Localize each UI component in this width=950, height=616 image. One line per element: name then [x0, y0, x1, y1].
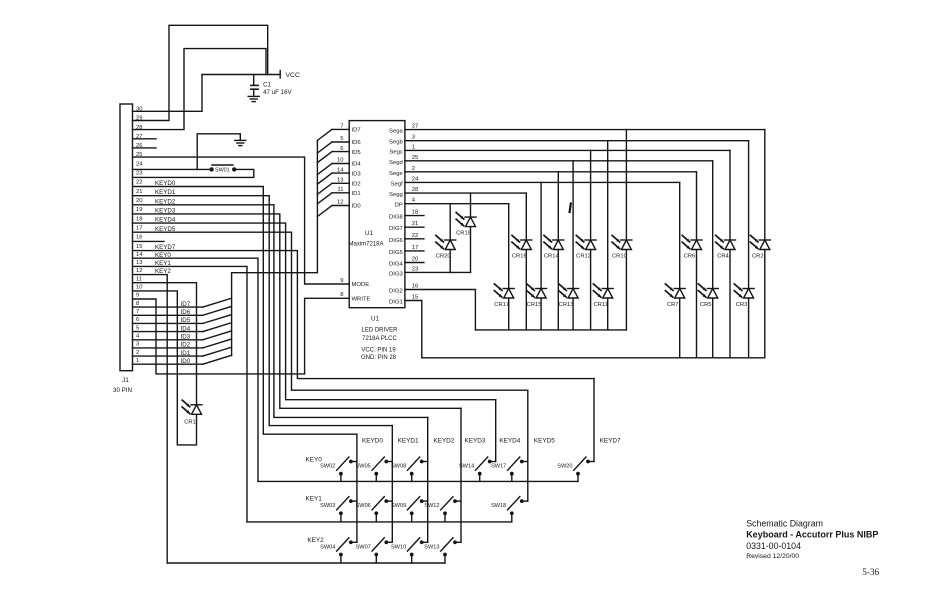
- wire bus branch to U1 ID2 pin 13: [317, 178, 349, 195]
- wire KEY0 label: [155, 252, 171, 259]
- LED CR2: [751, 130, 771, 358]
- svg-text:DIG6: DIG6: [389, 238, 403, 244]
- pin label Segb pin 3: [389, 135, 416, 146]
- pin 25 number: [136, 152, 142, 158]
- LED CR20: [436, 204, 456, 273]
- LED CR15: [527, 182, 547, 330]
- wire KEYD0 from pin 22 label: [155, 180, 176, 187]
- wire KEYD3 routing: [133, 214, 462, 408]
- switch SW06: [356, 497, 393, 522]
- wire bus branch to U1 ID3 pin 14: [317, 167, 349, 184]
- svg-text:ID2: ID2: [352, 182, 361, 188]
- svg-text:SW05: SW05: [356, 464, 371, 470]
- wire KEYD2 from pin 20 label: [155, 198, 176, 205]
- wire KEYD7 from pin 15 label: [155, 244, 176, 251]
- switch SW09: [391, 497, 428, 522]
- svg-text:KEYD5: KEYD5: [534, 438, 555, 445]
- svg-text:21: 21: [136, 189, 142, 195]
- svg-text:9: 9: [136, 293, 139, 299]
- wire Segc output: [405, 149, 730, 151]
- LED CR12: [576, 150, 596, 330]
- wire column KEYD7 vertical: [593, 379, 595, 462]
- svg-text:SW17: SW17: [491, 464, 506, 470]
- svg-text:28: 28: [136, 125, 142, 131]
- pin label ID0: [352, 204, 362, 210]
- wire KEY0 from pin 14 routing: [133, 258, 259, 481]
- node column KEYD4 label: [499, 438, 520, 445]
- U1 description text: [361, 316, 398, 362]
- title block: [746, 519, 878, 560]
- node column KEYD0 label: [362, 438, 383, 445]
- pin 17 number: [136, 225, 142, 231]
- svg-text:WRITE: WRITE: [352, 297, 371, 303]
- svg-text:VCC: PIN 19: VCC: PIN 19: [361, 348, 396, 354]
- switch SW10: [391, 538, 428, 563]
- svg-text:13: 13: [337, 178, 344, 184]
- svg-text:ID1: ID1: [181, 350, 191, 357]
- svg-text:1: 1: [412, 144, 415, 150]
- wire KEYD4 from pin 18 label: [155, 217, 176, 224]
- wire pin 9 to U1 WRITE: [133, 298, 350, 374]
- svg-text:CR6: CR6: [684, 254, 696, 260]
- pin label DIG1 pin 15: [389, 295, 419, 306]
- wire ID3 from pin 4: [133, 331, 232, 341]
- pin 8 number: [136, 301, 139, 307]
- pin 2 number: [136, 350, 139, 356]
- svg-text:SW13: SW13: [424, 544, 439, 550]
- svg-text:23: 23: [412, 266, 419, 272]
- svg-text:11: 11: [136, 276, 142, 282]
- svg-text:DIG5: DIG5: [389, 250, 403, 256]
- wire pin 25 to U1 MODE: [133, 157, 350, 284]
- wire ID4 from pin 5: [133, 323, 232, 333]
- svg-text:ID7: ID7: [181, 301, 191, 308]
- svg-text:KEYD4: KEYD4: [499, 438, 520, 445]
- svg-text:KEYD1: KEYD1: [398, 438, 419, 445]
- LED CR13: [559, 161, 579, 330]
- svg-text:SW03: SW03: [320, 503, 335, 509]
- svg-text:DIG1: DIG1: [389, 300, 403, 306]
- svg-text:DIG3: DIG3: [389, 271, 403, 277]
- pin label Sege pin 2: [389, 166, 415, 177]
- switch SW07: [356, 538, 393, 563]
- wire column KEYD3 vertical: [460, 408, 462, 542]
- wire ID5 from pin 6: [133, 315, 232, 325]
- svg-text:CR14: CR14: [544, 254, 560, 260]
- svg-text:0331-00-0104: 0331-00-0104: [746, 541, 801, 551]
- LED CR17: [494, 204, 514, 330]
- svg-text:Revised 12/20/00: Revised 12/20/00: [746, 553, 799, 560]
- svg-text:KEYD2: KEYD2: [433, 438, 454, 445]
- svg-text:ID0: ID0: [352, 204, 362, 210]
- node column KEYD1 label: [398, 438, 419, 445]
- pin label ID5: [352, 150, 362, 156]
- pin label Segd pin 25: [389, 155, 419, 166]
- wire pin 10 to CR1 anode: [133, 291, 197, 445]
- svg-text:GND: PIN 28: GND: PIN 28: [361, 355, 397, 361]
- pin 7 number: [136, 309, 139, 315]
- wire DIG7 stub: [405, 226, 424, 228]
- pin label DP pin 4: [395, 198, 416, 209]
- node column KEYD2 label: [433, 438, 454, 445]
- op-amp U1 LED driver Maxim7218A body: [349, 121, 405, 308]
- svg-text:28: 28: [412, 187, 419, 193]
- svg-text:27: 27: [412, 124, 419, 130]
- svg-text:17: 17: [136, 225, 142, 231]
- wire DIG6 stub: [405, 238, 424, 240]
- svg-text:7: 7: [136, 309, 139, 315]
- svg-text:5-36: 5-36: [862, 567, 879, 577]
- svg-text:CR10: CR10: [612, 254, 627, 260]
- pin 22 number: [136, 180, 142, 186]
- LED CR1: [182, 400, 202, 425]
- wire Sega output: [405, 129, 765, 131]
- svg-text:CR17: CR17: [494, 302, 509, 308]
- wire bus branch to U1 ID5 pin 6: [317, 146, 349, 163]
- wire DIG1 output: [405, 301, 422, 358]
- LED CR7: [665, 182, 685, 357]
- svg-text:KEYD7: KEYD7: [600, 438, 621, 445]
- svg-text:25: 25: [412, 155, 419, 161]
- pin 26 number: [136, 143, 142, 149]
- svg-text:ID5: ID5: [352, 150, 362, 156]
- svg-text:5: 5: [136, 325, 139, 331]
- wire KEY1 from pin 13 routing: [133, 266, 248, 522]
- svg-text:30 PIN: 30 PIN: [113, 387, 132, 394]
- svg-text:7218A PLCC: 7218A PLCC: [362, 336, 397, 342]
- svg-text:CR4: CR4: [717, 254, 729, 260]
- node column KEYD7 label: [600, 438, 621, 445]
- svg-text:ID2: ID2: [181, 342, 191, 349]
- pin label DIG3 pin 23: [389, 266, 419, 277]
- switch SW04: [320, 538, 357, 563]
- pin 9 number: [136, 293, 139, 299]
- pin label Segc pin 1: [389, 144, 415, 155]
- svg-text:20: 20: [412, 257, 419, 263]
- svg-text:CR11: CR11: [594, 302, 608, 308]
- switch SW12: [424, 497, 461, 522]
- wire bus branch to U1 ID6 pin 5: [317, 136, 349, 153]
- wire bus branch to U1 ID0 pin 12: [317, 200, 349, 217]
- switch SW20: [557, 457, 594, 481]
- svg-text:22: 22: [412, 233, 419, 239]
- wire row KEY1: [247, 496, 512, 522]
- svg-text:14: 14: [136, 252, 143, 258]
- pin 20 number: [136, 198, 142, 204]
- svg-text:DIG4: DIG4: [389, 262, 403, 268]
- svg-text:Segf: Segf: [391, 181, 403, 187]
- wire KEY1 label: [155, 260, 171, 267]
- svg-text:KEY1: KEY1: [306, 496, 323, 503]
- pin 21 number: [136, 189, 142, 195]
- ground for capacitor C1: [248, 96, 259, 101]
- svg-text:ID4: ID4: [181, 325, 191, 332]
- wire KEYD1 from pin 21 label: [155, 189, 176, 196]
- pin 27 number: [136, 134, 142, 140]
- wire column KEYD1 vertical: [391, 426, 393, 543]
- wire KEYD4 routing: [133, 223, 496, 400]
- wire ID1 from pin 2: [133, 347, 232, 357]
- wire pin 27 stub: [133, 138, 157, 140]
- svg-text:11: 11: [337, 187, 343, 193]
- svg-text:9: 9: [340, 278, 343, 284]
- svg-text:8: 8: [136, 301, 139, 307]
- ground at switch SW01: [197, 134, 246, 170]
- LED CR5: [698, 161, 718, 358]
- pin label Segg pin 28: [389, 187, 419, 198]
- svg-text:Sega: Sega: [389, 129, 403, 135]
- pin label Segf pin 24: [391, 176, 419, 187]
- switch SW01: [209, 165, 236, 174]
- wire KEYD2 routing: [133, 205, 428, 418]
- LED CR6: [682, 172, 702, 358]
- pin 3 number: [136, 342, 139, 348]
- svg-text:J1: J1: [122, 377, 129, 384]
- wire pin 30 to VCC rail: [133, 75, 203, 112]
- pin label DIG4 pin 20: [389, 257, 419, 268]
- wire bus branch to U1 ID7 pin 7: [317, 124, 349, 141]
- svg-text:10: 10: [337, 158, 344, 164]
- wire row KEY0: [258, 457, 578, 482]
- svg-text:CR13: CR13: [559, 302, 574, 308]
- pin 24 number: [136, 161, 143, 167]
- connector J1 30-pin: [113, 104, 133, 394]
- svg-text:CR12: CR12: [576, 254, 591, 260]
- pin 15 number: [136, 244, 142, 250]
- svg-text:LED DRIVER: LED DRIVER: [361, 328, 398, 334]
- wire Segg output: [405, 192, 526, 194]
- svg-text:ID5: ID5: [181, 317, 191, 324]
- svg-text:15: 15: [412, 295, 419, 301]
- svg-text:CR7: CR7: [667, 302, 679, 308]
- wire SW01 to pin 23: [133, 169, 254, 177]
- pin 5 number: [136, 325, 139, 331]
- wire KEYD1 routing: [133, 196, 393, 426]
- svg-text:21: 21: [412, 221, 419, 227]
- pin 11 number: [136, 276, 142, 282]
- pin 6 number: [136, 317, 139, 323]
- svg-text:ID6: ID6: [352, 140, 362, 146]
- pin 23 number: [136, 171, 142, 177]
- wire KEY2 from pin 12 routing: [133, 275, 168, 563]
- svg-text:KEYD0: KEYD0: [362, 438, 383, 445]
- svg-text:15: 15: [136, 244, 142, 250]
- svg-text:Sege: Sege: [389, 171, 403, 177]
- svg-text:Segd: Segd: [389, 160, 403, 166]
- switch SW02: [320, 457, 357, 481]
- svg-text:DIG8: DIG8: [389, 215, 403, 221]
- pin label ID6: [352, 140, 362, 146]
- wire pin 29 loop to VCC rail: [133, 25, 268, 120]
- wire DIG4 stub: [405, 262, 424, 264]
- wire Segb output: [405, 140, 749, 142]
- svg-text:MODE: MODE: [352, 282, 370, 288]
- svg-text:13: 13: [136, 260, 142, 266]
- pin 19 number: [136, 207, 142, 213]
- svg-text:Keyboard - Accutorr Plus NIBP: Keyboard - Accutorr Plus NIBP: [746, 530, 878, 540]
- svg-text:12: 12: [337, 200, 344, 206]
- svg-text:SW06: SW06: [356, 503, 371, 509]
- switch SW05: [356, 457, 393, 481]
- svg-text:47 uF 16V: 47 uF 16V: [263, 89, 292, 96]
- pin label ID3: [352, 171, 362, 177]
- wire column KEYD2 vertical: [427, 417, 429, 542]
- svg-text:SW08: SW08: [391, 464, 406, 470]
- wire KEYD0 routing: [133, 187, 357, 435]
- svg-text:16: 16: [412, 284, 419, 290]
- wire DIG8 stub: [405, 215, 424, 217]
- svg-text:VCC: VCC: [286, 72, 300, 79]
- LED CR14: [544, 172, 564, 330]
- svg-text:KEYD3: KEYD3: [465, 438, 486, 445]
- svg-text:ID3: ID3: [352, 171, 362, 177]
- pin label DIG7 pin 21: [389, 221, 418, 232]
- svg-text:C1: C1: [263, 81, 271, 88]
- wire ID0 from pin 1: [133, 355, 232, 365]
- power rail VCC with terminal: [202, 71, 300, 80]
- svg-text:U1: U1: [371, 316, 380, 323]
- wire DIG5 stub: [405, 250, 424, 252]
- wire ID7 from pin 8: [133, 298, 232, 308]
- wire column KEYD5 vertical: [527, 390, 529, 501]
- svg-text:DP: DP: [395, 203, 403, 209]
- switch SW13: [424, 538, 461, 563]
- wire DIG3 output: [405, 271, 471, 273]
- svg-text:SW12: SW12: [424, 503, 439, 509]
- pin label DIG2 pin 16: [389, 284, 419, 295]
- LED CR10: [612, 130, 632, 330]
- wire row KEY2: [167, 537, 445, 563]
- svg-text:ID7: ID7: [352, 128, 361, 134]
- wire Segd output: [405, 160, 713, 162]
- page number: [862, 567, 879, 577]
- svg-text:22: 22: [136, 180, 142, 186]
- svg-text:3: 3: [136, 342, 139, 348]
- svg-text:1: 1: [136, 358, 139, 364]
- svg-text:Segg: Segg: [389, 192, 403, 198]
- pin 14 number: [136, 252, 143, 258]
- svg-text:Schematic Diagram: Schematic Diagram: [746, 519, 823, 529]
- wire cathode bus right group: [422, 357, 765, 359]
- wire pin 28 loop to VCC rail: [133, 49, 267, 130]
- svg-text:7: 7: [340, 124, 343, 130]
- LED CR19: [456, 193, 476, 272]
- wire ID6 from pin 7: [133, 306, 232, 316]
- switch SW03: [320, 497, 357, 522]
- svg-text:24: 24: [412, 176, 419, 182]
- svg-text:ID4: ID4: [352, 162, 362, 168]
- svg-text:10: 10: [136, 285, 142, 291]
- svg-text:14: 14: [337, 167, 344, 173]
- svg-text:30: 30: [136, 107, 142, 113]
- svg-text:CR19: CR19: [456, 231, 471, 237]
- svg-text:DIG2: DIG2: [389, 289, 403, 295]
- wire bus branch to U1 ID1 pin 11: [317, 187, 349, 204]
- pin label DIG6 pin 22: [389, 233, 418, 244]
- pin label MODE: [340, 278, 369, 288]
- stray mark: [570, 204, 571, 213]
- wire pin 26 stub: [133, 147, 157, 149]
- svg-text:12: 12: [136, 268, 142, 274]
- wire pin 11 to CR1 cathode: [133, 283, 197, 405]
- svg-text:20: 20: [136, 198, 142, 204]
- wire DP output: [405, 203, 509, 205]
- svg-text:SW09: SW09: [391, 503, 406, 509]
- svg-text:SW18: SW18: [491, 503, 506, 509]
- svg-text:23: 23: [136, 171, 142, 177]
- switch SW18: [491, 497, 528, 522]
- svg-text:6: 6: [136, 317, 139, 323]
- node column KEYD5 label: [534, 438, 555, 445]
- switch SW08: [391, 457, 428, 481]
- wire Sege output: [405, 171, 697, 173]
- svg-text:ID1: ID1: [352, 191, 361, 197]
- svg-text:17: 17: [412, 245, 419, 251]
- svg-text:Segc: Segc: [389, 149, 402, 155]
- svg-text:SW04: SW04: [320, 544, 335, 550]
- svg-text:19: 19: [136, 207, 142, 213]
- svg-text:2: 2: [136, 350, 139, 356]
- svg-text:ID3: ID3: [181, 334, 191, 341]
- pin label Sega pin 27: [389, 124, 418, 135]
- pin label ID1: [352, 191, 361, 197]
- svg-text:16: 16: [136, 235, 142, 241]
- svg-text:SW20: SW20: [557, 464, 572, 470]
- wire pin 24 to SW01: [133, 168, 212, 170]
- svg-text:CR5: CR5: [700, 302, 712, 308]
- svg-text:18: 18: [412, 210, 419, 216]
- svg-text:ID6: ID6: [181, 309, 191, 316]
- svg-text:CR2: CR2: [752, 254, 764, 260]
- node column KEYD3 label: [465, 438, 486, 445]
- pin 29 number: [136, 116, 142, 122]
- wire column KEYD0 vertical: [356, 434, 358, 542]
- svg-text:CR20: CR20: [436, 254, 451, 260]
- svg-text:24: 24: [136, 161, 143, 167]
- pin 12 number: [136, 268, 142, 274]
- svg-text:SW07: SW07: [356, 544, 371, 550]
- wire cathode bus left group: [475, 329, 626, 331]
- pin 10 number: [136, 285, 142, 291]
- LED CR11: [593, 141, 613, 330]
- pin label DIG8 pin 18: [389, 210, 419, 221]
- pin 13 number: [136, 260, 142, 266]
- pin label DIG5 pin 17: [389, 245, 418, 256]
- pin label ID4: [352, 162, 362, 168]
- switch SW17: [491, 457, 528, 481]
- pin label WRITE: [340, 292, 370, 302]
- LED CR16: [512, 193, 532, 330]
- wire column KEYD4 vertical: [495, 400, 497, 462]
- wire KEYD3 from pin 19 label: [155, 207, 176, 214]
- LED CR4: [716, 150, 736, 357]
- svg-text:ID0: ID0: [181, 358, 191, 365]
- pin 28 number: [136, 125, 142, 131]
- pin 16 number: [136, 235, 142, 241]
- wire ID2 from pin 3: [133, 339, 232, 349]
- node ID bus trunk: [232, 140, 318, 355]
- svg-text:CR15: CR15: [527, 302, 542, 308]
- pin label ID7: [352, 128, 361, 134]
- svg-text:SW02: SW02: [320, 464, 335, 470]
- pin 1 number: [136, 358, 139, 364]
- svg-text:SW14: SW14: [459, 464, 474, 470]
- wire KEYD5 routing: [133, 232, 528, 390]
- pin 18 number: [136, 216, 142, 222]
- svg-text:18: 18: [136, 216, 142, 222]
- wire pin 16 stub: [133, 240, 165, 242]
- svg-text:29: 29: [136, 116, 142, 122]
